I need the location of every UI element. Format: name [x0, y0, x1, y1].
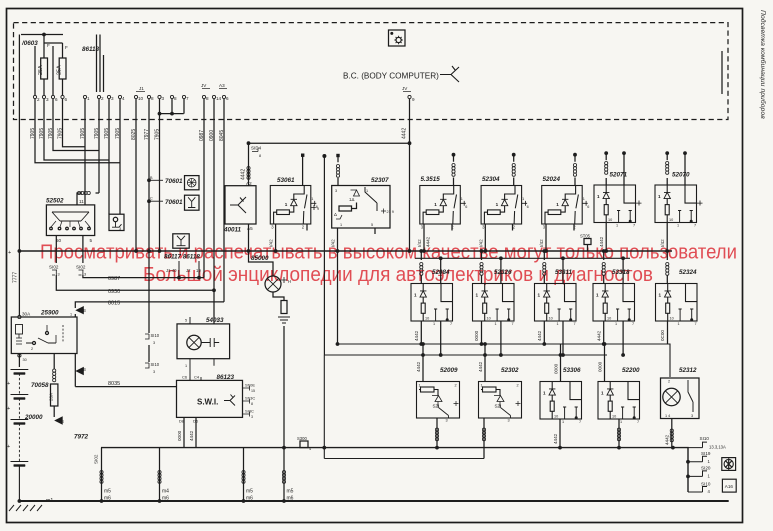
svg-text:52071: 52071 — [610, 172, 628, 179]
svg-text:53061: 53061 — [277, 177, 295, 184]
relay internals — [16, 325, 23, 335]
svg-text:SI3C: SI3C — [245, 409, 254, 414]
svg-text:SI10: SI10 — [700, 436, 710, 441]
svg-text:B: B — [83, 308, 86, 313]
svg-text:15: 15 — [251, 389, 255, 393]
svg-text:70601: 70601 — [165, 199, 183, 206]
svg-text:86118: 86118 — [82, 46, 100, 53]
svg-text:H: H — [288, 279, 291, 284]
wire 7905 pin6 drop with elbow — [53, 99, 99, 151]
link wire vertical — [323, 355, 325, 459]
svg-text:I/42: I/42 — [417, 239, 422, 247]
svg-text:Просматривать и распечатывать: Просматривать и распечатывать в высоком … — [40, 242, 737, 264]
svg-text:4442: 4442 — [553, 433, 558, 444]
wire 52326 pin10 down — [481, 321, 483, 344]
connector SI10 taps on wire — [148, 251, 150, 333]
svg-text:53318: 53318 — [612, 269, 630, 276]
wire 86118 — [103, 55, 105, 92]
svg-text:3: 3 — [162, 96, 165, 101]
svg-text:C: C — [150, 197, 153, 201]
tap SI10 4 — [688, 487, 707, 493]
wire 53311 pin10 down — [543, 321, 545, 344]
flasher unit 54033 — [177, 324, 230, 359]
svg-text:1: 1 — [185, 364, 187, 368]
svg-text:3: 3 — [251, 415, 253, 419]
stub 52070 pin1 — [697, 201, 703, 206]
svg-text:21 9: 21 9 — [387, 210, 394, 214]
svg-text:3: 3 — [46, 97, 49, 102]
relay 25900 — [11, 317, 77, 354]
wire 53311 pin7 down — [562, 321, 564, 355]
svg-text:SI20: SI20 — [701, 466, 711, 471]
switch 53306 — [540, 382, 582, 425]
svg-text:+: + — [7, 381, 10, 387]
switch 53061 — [270, 186, 318, 230]
svg-text:I/42: I/42 — [660, 239, 665, 247]
wire long drop from node — [323, 156, 325, 355]
svg-text:/0603: /0603 — [21, 40, 38, 47]
stub 53061 pin2 — [306, 224, 308, 231]
wire 52084 pin7 down — [440, 321, 442, 355]
svg-text:2: 2 — [37, 97, 40, 102]
wire 52304 pin3 down — [484, 224, 486, 251]
stub 52009 pin1 top — [421, 342, 425, 346]
switch 52200 — [598, 382, 640, 425]
svg-text:1 4: 1 4 — [665, 414, 670, 418]
svg-text:52200: 52200 — [622, 367, 640, 374]
svg-text:0987: 0987 — [108, 276, 120, 282]
wire from pin 5 down — [82, 236, 84, 264]
wire 52071 pin10 down — [605, 223, 607, 252]
stub 52024 pin2 — [573, 224, 575, 231]
svg-text:8: 8 — [259, 154, 261, 158]
wire 52009 pin4 down — [436, 418, 438, 448]
svg-text:J1-40: J1-40 — [166, 268, 177, 273]
wires pins 2 and 6 — [35, 46, 53, 95]
svg-text:ST3C: ST3C — [245, 396, 255, 401]
pin numbers — [37, 96, 229, 102]
gear P icon box — [109, 214, 124, 230]
switch 53318 — [593, 284, 635, 327]
switch 52084 — [411, 284, 453, 327]
svg-text:0987: 0987 — [199, 130, 205, 141]
svg-text:11: 11 — [79, 199, 84, 204]
svg-text:B.C. (BODY COMPUTER): B.C. (BODY COMPUTER) — [343, 72, 439, 81]
stub 53515 pin1 top with coil — [452, 153, 456, 157]
svg-text:J2: J2 — [186, 268, 191, 273]
stub 52307 pin3 top with coil — [336, 154, 339, 157]
junctions on right drop — [686, 460, 690, 464]
svg-text:+: + — [7, 444, 10, 450]
stub 53515 pin2 — [451, 224, 453, 231]
switch 52024 — [542, 186, 590, 230]
wire 52200 pin10 down — [618, 419, 620, 448]
wire 52024 pin3 down — [545, 224, 547, 251]
wire 52307 pin1 down long — [337, 228, 339, 344]
svg-text:13.3,13A: 13.3,13A — [709, 445, 726, 450]
svg-text:S300: S300 — [297, 436, 307, 441]
svg-text:8035: 8035 — [108, 381, 120, 387]
svg-text:30: 30 — [23, 358, 27, 362]
svg-text:ST05: ST05 — [580, 234, 591, 239]
svg-text:20000: 20000 — [24, 414, 43, 421]
svg-text:1: 1 — [70, 313, 72, 317]
bus row2-row3 upper — [337, 344, 671, 377]
svg-text:7905: 7905 — [57, 128, 63, 139]
svg-text:SID4: SID4 — [251, 146, 262, 151]
svg-text:6: 6 — [55, 97, 58, 102]
svg-text:SI10: SI10 — [151, 362, 160, 367]
svg-text:I/42: I/42 — [478, 239, 483, 247]
svg-text:52304: 52304 — [482, 176, 500, 183]
svg-text:4442: 4442 — [537, 330, 542, 341]
switch 53515 — [420, 186, 468, 230]
dashed harness box — [14, 23, 729, 120]
svg-text:7905: 7905 — [30, 128, 36, 139]
svg-text:4442: 4442 — [599, 236, 604, 247]
svg-text:52024: 52024 — [543, 176, 561, 183]
svg-text:7: 7 — [186, 96, 189, 101]
svg-text:5.3515: 5.3515 — [421, 176, 441, 183]
wire 52070 pin10 down — [666, 223, 668, 252]
svg-text:9: 9 — [412, 97, 415, 102]
svg-text:m1: m1 — [46, 498, 53, 504]
svg-text:25A: 25A — [57, 65, 63, 75]
node junction on 7777 — [18, 249, 22, 253]
main distribution bus — [19, 250, 672, 252]
svg-text:B: B — [61, 419, 64, 424]
svg-text:3: 3 — [335, 189, 337, 193]
svg-text:m5: m5 — [104, 489, 111, 495]
svg-text:52324: 52324 — [679, 269, 697, 276]
ground m1 — [18, 499, 22, 503]
svg-text:6: 6 — [65, 97, 68, 102]
svg-text:3: 3 — [58, 273, 60, 277]
stub 53061 pin9 — [311, 205, 316, 210]
svg-text:C4: C4 — [194, 375, 200, 380]
svg-text:+: + — [8, 250, 11, 256]
switch 52326 — [473, 284, 515, 327]
wires D8 D6 down — [184, 417, 196, 447]
svg-text:1: 1 — [340, 223, 342, 227]
svg-text:B: B — [83, 367, 86, 372]
svg-text:8: 8 — [151, 96, 154, 101]
lower link bus — [324, 458, 484, 460]
svg-text:I/42: I/42 — [269, 239, 274, 247]
junction low link — [322, 446, 326, 450]
svg-text:52326: 52326 — [494, 269, 512, 276]
svg-text:m6: m6 — [104, 496, 111, 502]
svg-text:SI19: SI19 — [701, 451, 711, 456]
bottom collector bus — [101, 448, 688, 492]
svg-text:52312: 52312 — [679, 367, 697, 374]
svg-text:2: 2 — [101, 96, 104, 101]
resistor 20A — [51, 384, 58, 406]
svg-text:SI02: SI02 — [94, 454, 99, 464]
switch 52304 — [481, 186, 529, 230]
stub 53318 pin8 with coil — [602, 249, 606, 253]
svg-text:m5: m5 — [246, 489, 253, 495]
svg-text:2: 2 — [668, 380, 670, 384]
stub 52071 pin5 top — [622, 151, 626, 155]
svg-text:JV: JV — [201, 83, 207, 88]
stub 52200 pin8 top — [603, 342, 607, 346]
stub 53311 pin5 — [561, 256, 565, 260]
wire 8015 drop — [223, 99, 225, 302]
svg-text:I/42: I/42 — [331, 239, 336, 247]
bus under body computer — [249, 142, 410, 144]
svg-text:4442: 4442 — [189, 430, 194, 441]
stub 52071 pin1 — [636, 201, 642, 206]
stub 52324 pin8 with coil — [666, 251, 668, 284]
svg-text:3: 3 — [691, 414, 693, 418]
connector 86118 bracket — [97, 35, 101, 93]
svg-text:J1: J1 — [139, 86, 144, 91]
stub 52070 pin8 top with coil — [665, 151, 669, 155]
wire 8035 from relay — [74, 354, 76, 387]
svg-text:5: 5 — [185, 319, 187, 323]
svg-text:1: 1 — [87, 96, 90, 101]
svg-text:85000: 85000 — [251, 255, 269, 262]
wire drop third central — [159, 99, 161, 251]
fuse F2 25A — [59, 58, 66, 79]
pin 30 wire to battery — [18, 354, 20, 368]
svg-text:7777: 7777 — [13, 272, 19, 283]
taps ST0E ST3C SI3C — [243, 386, 250, 391]
svg-text:SI10: SI10 — [151, 333, 160, 338]
svg-text:Большой энциклопедии для автоэ: Большой энциклопедии для автоэлектриков … — [143, 264, 653, 286]
svg-text:52502: 52502 — [46, 198, 64, 205]
wire 53306 pin10 down — [559, 419, 561, 448]
svg-text:0000: 0000 — [554, 363, 559, 374]
svg-text:4442: 4442 — [597, 330, 602, 341]
wire from pin 50 down — [55, 236, 57, 264]
wire to fuse F2 — [44, 43, 63, 58]
svg-text:30A: 30A — [22, 312, 31, 317]
svg-text:7905: 7905 — [80, 128, 86, 139]
wire 0987 drop — [203, 99, 205, 278]
stub 52084 pin8 with coil — [419, 249, 423, 253]
svg-text:7977: 7977 — [144, 129, 150, 140]
tap SI10 13.3A — [688, 442, 707, 448]
svg-text:SI10: SI10 — [701, 482, 711, 487]
svg-text:52307: 52307 — [371, 177, 389, 184]
svg-text:86123: 86123 — [217, 374, 235, 381]
svg-text:52302: 52302 — [501, 367, 519, 374]
wire 7905 pin2 drop with elbow — [35, 99, 120, 163]
svg-text:ST0E: ST0E — [245, 383, 255, 388]
wire 52324 pin10 down — [667, 321, 669, 344]
svg-text:1Δ: 1Δ — [349, 197, 354, 202]
rotated wire labels — [30, 128, 225, 141]
drop to ground m4 m6 — [159, 448, 161, 501]
lamp icon box top — [389, 30, 406, 46]
svg-text:3: 3 — [111, 96, 114, 101]
svg-text:JV: JV — [402, 86, 408, 91]
switch 52009 — [417, 382, 460, 423]
svg-text:4442: 4442 — [241, 169, 247, 180]
svg-text:54033: 54033 — [206, 317, 224, 324]
arrow B to pin1 — [74, 314, 76, 317]
svg-text:F: F — [47, 43, 50, 48]
svg-text:0930: 0930 — [108, 289, 120, 295]
svg-text:53306: 53306 — [563, 367, 581, 374]
tap SI20 — [688, 471, 707, 477]
svg-text:0900: 0900 — [209, 130, 215, 141]
fuse F1 25A — [41, 58, 48, 79]
svg-text:SI02: SI02 — [49, 265, 59, 270]
wire 7777 left feed — [18, 35, 20, 317]
drop to ground m5 m6 (lamp wire) — [282, 471, 285, 484]
second distribution bus — [415, 257, 630, 259]
wire 0930 bus — [56, 275, 214, 290]
svg-text:0000: 0000 — [177, 430, 182, 441]
wire 52302 pin3 down to low bus — [483, 418, 485, 459]
relay 70601 icon A — [147, 178, 151, 182]
junction 0930 — [212, 288, 216, 292]
wire feed top — [21, 34, 63, 36]
wire BC pin down to bus — [409, 99, 411, 144]
svg-text:4442: 4442 — [416, 361, 421, 372]
main ground line — [18, 500, 729, 502]
tap SI19 — [688, 456, 707, 462]
switch 52307 — [332, 186, 390, 229]
svg-text:I/42: I/42 — [539, 239, 544, 247]
svg-text:4442: 4442 — [402, 128, 408, 139]
svg-text:4: 4 — [122, 96, 125, 101]
svg-text:7905: 7905 — [48, 128, 54, 139]
svg-text:20A: 20A — [49, 392, 54, 401]
svg-text:m6: m6 — [287, 496, 294, 502]
relay 70601 icon B — [147, 199, 151, 203]
svg-text:7905: 7905 — [104, 128, 110, 139]
svg-text:3: 3 — [153, 370, 155, 374]
svg-text:3: 3 — [153, 341, 155, 345]
svg-text:0000: 0000 — [598, 361, 603, 372]
svg-text:4: 4 — [309, 447, 311, 451]
svg-text:Δ: Δ — [334, 212, 337, 217]
svg-text:53311: 53311 — [555, 269, 573, 276]
svg-text:m6: m6 — [162, 496, 169, 502]
coil on wire to switch 52502 — [77, 151, 110, 205]
wire 53061 pin1 up — [302, 155, 304, 186]
svg-text:52070: 52070 — [672, 172, 690, 179]
svg-text:25900: 25900 — [40, 310, 59, 317]
body computer unit 40011 — [225, 186, 256, 224]
svg-text:1: 1 — [366, 189, 368, 193]
svg-text:52009: 52009 — [440, 367, 458, 374]
switch 52071 — [594, 185, 636, 228]
K symbol — [440, 66, 459, 82]
stub 52304 pin1 top with coil — [512, 153, 516, 157]
switch 52070 — [655, 185, 697, 228]
svg-text:4442: 4442 — [478, 361, 483, 372]
svg-text:4442: 4442 — [414, 330, 419, 341]
svg-text:m4: m4 — [162, 489, 169, 495]
svg-text:14: 14 — [216, 96, 222, 101]
svg-text:8015: 8015 — [108, 301, 120, 307]
svg-text:+: + — [7, 406, 10, 412]
svg-text:8: 8 — [251, 402, 253, 406]
stub 52302 pin1 top — [483, 342, 487, 346]
stub 52326 pin5 — [499, 256, 503, 260]
wire 52084 pin10 down — [420, 321, 422, 344]
stub 52304 pin2 — [512, 224, 514, 231]
stub line right — [721, 51, 723, 94]
wire drop pin3 to P box — [108, 99, 110, 215]
svg-text:A16: A16 — [725, 484, 734, 489]
wire 52326 pin7 down — [500, 321, 502, 355]
svg-text:5: 5 — [371, 223, 373, 227]
svg-text:70601: 70601 — [165, 178, 183, 185]
svg-text:Подсветка комбинации приборов: Подсветка комбинации приборов — [759, 10, 767, 119]
drop to ground m5 m6 (mid) — [243, 448, 245, 501]
wire 53061 pin3 down — [275, 224, 277, 251]
wire drop pin1 to switch 52502 — [84, 99, 86, 205]
wire A5 down — [248, 224, 250, 251]
stub 52070 pin5 top — [683, 151, 687, 155]
stub 52071 pin8 top with coil — [604, 151, 608, 155]
wire 0930 drop — [213, 99, 215, 324]
junction — [42, 33, 46, 37]
B.C. connector pin — [408, 95, 411, 98]
svg-text:7972: 7972 — [74, 434, 89, 441]
wire 52312 pin4 down — [671, 419, 673, 448]
stub 52326 pin8 with coil — [480, 249, 484, 253]
svg-text:10: 10 — [196, 268, 201, 273]
bus row2-row3 lower — [324, 354, 607, 356]
svg-text:9: 9 — [317, 207, 319, 211]
svg-text:8045: 8045 — [219, 130, 225, 141]
svg-text:8025: 8025 — [131, 129, 137, 140]
stub 52084 pin5 — [439, 256, 443, 260]
svg-text:8: 8 — [206, 96, 209, 101]
svg-text:m6: m6 — [246, 496, 253, 502]
wire to fuse F1 — [43, 35, 45, 59]
svg-text:4442: 4442 — [665, 434, 670, 445]
svg-text:F: F — [65, 45, 68, 50]
stub 53318 pin5 — [621, 256, 625, 260]
svg-text:7905: 7905 — [154, 129, 160, 140]
fuse output wires — [44, 79, 63, 95]
steering wheel unit 86123 — [177, 380, 243, 417]
switch 52324 — [656, 284, 698, 327]
svg-text:C6: C6 — [182, 375, 188, 380]
svg-text:6: 6 — [226, 96, 229, 101]
wire 53318 pin7 down — [622, 321, 624, 355]
icon box fan — [722, 458, 736, 471]
drop to ground m5 m6 (left) — [101, 448, 103, 501]
svg-text:8: 8 — [174, 96, 177, 101]
switch pack icon Y 86117 — [173, 234, 189, 248]
wire A2 up — [248, 143, 250, 186]
pin J2 10 — [198, 261, 200, 278]
connector pins row — [33, 95, 36, 98]
svg-text:7905: 7905 — [39, 128, 45, 139]
wire 7977 — [148, 99, 150, 251]
wire 7905 pin6b drop with elbow — [63, 99, 86, 147]
svg-text:40011: 40011 — [223, 227, 242, 234]
stub 53311 pin8 with coil — [542, 249, 546, 253]
svg-text:3: 3 — [119, 227, 121, 231]
svg-text:7905: 7905 — [94, 128, 100, 139]
wire 53318 pin10 down — [603, 321, 605, 344]
switch 52302 — [479, 382, 522, 423]
svg-text:m5: m5 — [287, 489, 294, 495]
svg-text:0000: 0000 — [474, 330, 479, 341]
svg-text:0C00: 0C00 — [660, 330, 665, 341]
wire 53515 pin3 down — [423, 224, 425, 251]
